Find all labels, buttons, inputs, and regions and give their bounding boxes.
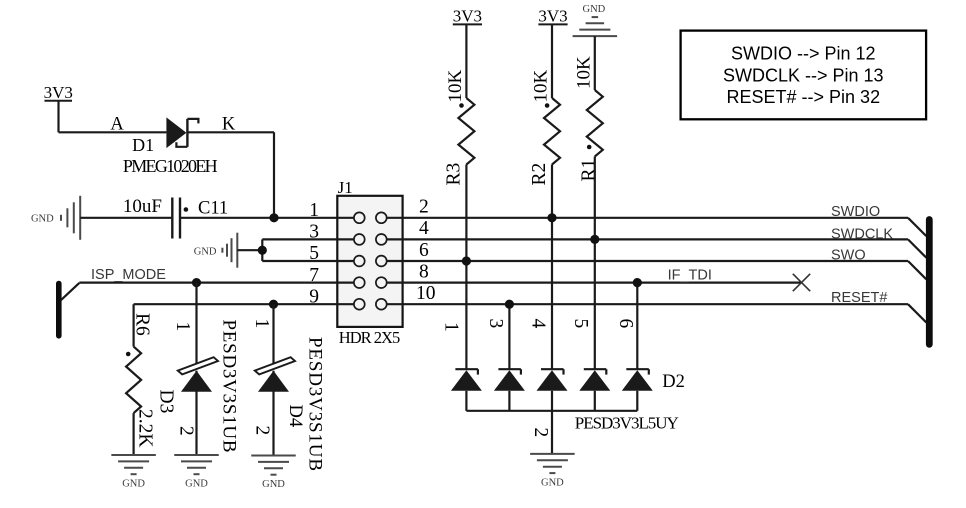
wire D2 pin2 to ground bbox=[551, 411, 553, 454]
net label IF_TDI bbox=[668, 268, 712, 284]
svg-text:SWDCLK: SWDCLK bbox=[831, 227, 893, 243]
power symbol 3V3 (left, feeds D1 anode) bbox=[44, 83, 73, 102]
net label SWDIO bbox=[831, 204, 880, 220]
wire ISP_MODE tap to D3 bbox=[195, 283, 197, 366]
resistor R6 bbox=[126, 347, 141, 414]
junction node D2.6/IF_TDI bbox=[633, 278, 642, 287]
wire ISP_MODE to pin7 bbox=[61, 283, 337, 301]
svg-text:10uF: 10uF bbox=[123, 196, 162, 217]
junction node gnd pins3/5 bbox=[258, 246, 267, 255]
wire R1 to D2 pin5 bbox=[594, 157, 596, 370]
wire 3V3 to R2 bbox=[551, 24, 553, 98]
wire pin9 to R6 bbox=[134, 304, 338, 346]
wire D2 pin6 riser bbox=[636, 283, 638, 370]
wire D3 to ground bbox=[195, 371, 197, 455]
svg-text:3: 3 bbox=[485, 319, 506, 329]
label D1 bbox=[132, 135, 154, 155]
power symbol 3V3 (above R3) bbox=[453, 7, 482, 26]
net label ISP_MODE bbox=[91, 267, 166, 283]
svg-text:C11: C11 bbox=[198, 199, 228, 219]
svg-text:D1: D1 bbox=[132, 135, 154, 155]
diode D2 channel 2 bbox=[494, 369, 525, 391]
wire pin4 SWDCLK bbox=[403, 239, 927, 257]
pin label 2 of D2 bbox=[530, 428, 551, 438]
diode D2 channel 3 bbox=[537, 369, 568, 391]
svg-text:SWO: SWO bbox=[831, 247, 866, 263]
value 10K (R3) bbox=[445, 70, 466, 103]
svg-text:1: 1 bbox=[251, 319, 272, 329]
svg-text:J1: J1 bbox=[338, 178, 353, 197]
label D2 bbox=[662, 372, 685, 392]
svg-text:2: 2 bbox=[419, 197, 429, 218]
svg-text:GND: GND bbox=[583, 4, 606, 15]
connector stub (right, off-page) bbox=[926, 220, 933, 345]
svg-text:PESD3V3S1UB: PESD3V3S1UB bbox=[219, 320, 240, 453]
svg-text:4: 4 bbox=[419, 218, 429, 239]
svg-text:5: 5 bbox=[570, 319, 591, 329]
svg-text:GND: GND bbox=[262, 479, 285, 490]
svg-text:2: 2 bbox=[252, 426, 273, 436]
svg-text:R3: R3 bbox=[444, 163, 465, 186]
power symbol 3V3 (above R2) bbox=[538, 7, 567, 26]
svg-text:8: 8 bbox=[419, 261, 429, 282]
no-connect X on IF_TDI bbox=[793, 274, 810, 291]
svg-text:1: 1 bbox=[441, 322, 462, 332]
junction node D4 tap on pin9 bbox=[269, 300, 278, 309]
value 10K (R1) bbox=[573, 56, 594, 89]
diode D4 (TVS) bbox=[255, 357, 295, 392]
svg-text:SWDCLK --> Pin 13: SWDCLK --> Pin 13 bbox=[723, 65, 884, 85]
svg-text:4: 4 bbox=[528, 319, 549, 329]
svg-text:HDR 2X5: HDR 2X5 bbox=[339, 328, 400, 347]
wire pin5 to gnd corner bbox=[262, 260, 337, 262]
label J1 bbox=[338, 178, 353, 197]
ground GND (pins 3/5) bbox=[194, 233, 263, 268]
svg-text:PMEG1020EH: PMEG1020EH bbox=[123, 156, 218, 176]
junction node D3 tap on ISP_MODE bbox=[192, 278, 201, 287]
junction node D2.3/RESET# bbox=[505, 300, 514, 309]
svg-text:D3: D3 bbox=[156, 390, 177, 414]
ground GND (below R6) bbox=[111, 455, 156, 490]
wire C11 to J1 pin 1 bbox=[180, 217, 337, 219]
wire pin2 SWDIO bbox=[403, 218, 927, 236]
diode D1 (schottky) bbox=[166, 117, 198, 148]
wire pin8 IF_TDI bbox=[403, 282, 802, 284]
resistor R1 bbox=[587, 90, 603, 157]
svg-text:3V3: 3V3 bbox=[538, 7, 567, 26]
wire 3V3 to D1 anode bbox=[59, 101, 167, 133]
resistor R2 bbox=[544, 98, 560, 165]
wire pin10 RESET# bbox=[403, 304, 927, 322]
net label SWDCLK bbox=[831, 227, 893, 243]
pin label 2 of D4 bbox=[252, 426, 273, 436]
pin label 1 of D4 bbox=[251, 319, 272, 329]
wire R6 to ground bbox=[133, 413, 135, 455]
note box with pin mapping text bbox=[681, 31, 927, 120]
wire D1 cathode to node pin1 bbox=[187, 132, 274, 218]
connector stub (left, off-page) bbox=[56, 284, 62, 336]
svg-text:3V3: 3V3 bbox=[453, 7, 482, 26]
ground GND (left of C11) bbox=[31, 196, 80, 240]
svg-text:10K: 10K bbox=[531, 70, 552, 103]
svg-text:1: 1 bbox=[172, 322, 193, 332]
label R1 bbox=[579, 159, 600, 182]
wire GND to R1 bbox=[594, 36, 596, 90]
ground GND (below D2) bbox=[530, 454, 575, 489]
label D4 bbox=[285, 405, 305, 428]
pin labels 1 3 4 5 6 of D2 bbox=[441, 319, 637, 332]
svg-text:2.2K: 2.2K bbox=[135, 409, 156, 447]
wire R3 to D2 pin1 bbox=[465, 165, 467, 370]
svg-text:PESD3V3L5UY: PESD3V3L5UY bbox=[575, 414, 679, 433]
connector J1 HDR 2X5 bbox=[337, 196, 402, 327]
net label RESET# bbox=[831, 290, 887, 306]
wire 3V3 to R3 bbox=[465, 24, 467, 98]
wire R2 to D2 pin4 bbox=[551, 165, 553, 370]
svg-text:ISP_MODE: ISP_MODE bbox=[91, 267, 166, 283]
svg-text:RESET# --> Pin 32: RESET# --> Pin 32 bbox=[727, 87, 881, 107]
wire pin3 to gnd corner bbox=[262, 238, 337, 240]
svg-text:10K: 10K bbox=[573, 56, 594, 89]
label R2 bbox=[529, 163, 550, 186]
diode D2 channel 1 bbox=[451, 369, 482, 391]
svg-text:2: 2 bbox=[176, 426, 197, 436]
label A (anode) bbox=[110, 115, 124, 135]
svg-text:RESET#: RESET# bbox=[831, 290, 887, 306]
wire D2 pin3 riser bbox=[508, 304, 510, 369]
ground GND (above R1) bbox=[573, 4, 618, 36]
junction node R1/SWDCLK bbox=[590, 235, 599, 244]
svg-text:D4: D4 bbox=[285, 405, 305, 428]
wire gnd riser pins3/5 bbox=[261, 239, 263, 261]
net label SWO bbox=[831, 247, 866, 263]
resistor R3 bbox=[458, 98, 474, 165]
ground GND (below D4) bbox=[251, 456, 296, 491]
ground GND (below D3) bbox=[174, 455, 219, 490]
svg-text:10K: 10K bbox=[445, 70, 466, 103]
wire GND to C11 bbox=[80, 217, 172, 219]
svg-text:A: A bbox=[110, 115, 124, 135]
diode D3 (TVS) bbox=[178, 357, 218, 392]
label C11 bbox=[198, 199, 228, 219]
pin label 2 of D3 bbox=[176, 426, 197, 436]
svg-text:IF_TDI: IF_TDI bbox=[668, 268, 712, 284]
svg-text:GND: GND bbox=[31, 214, 54, 225]
value PESD3V3S1UB (D4) bbox=[305, 337, 326, 471]
pin label 1 of D3 bbox=[172, 322, 193, 332]
svg-text:GND: GND bbox=[541, 477, 564, 488]
junction node R2/SWDIO bbox=[547, 213, 556, 222]
junction node D1/C11/pin1 bbox=[269, 213, 278, 222]
svg-text:R2: R2 bbox=[529, 163, 550, 186]
value HDR 2X5 bbox=[339, 328, 400, 347]
wire pin6 SWO bbox=[403, 261, 927, 279]
svg-text:10: 10 bbox=[416, 283, 436, 304]
svg-text:SWDIO --> Pin 12: SWDIO --> Pin 12 bbox=[731, 44, 876, 64]
svg-text:R1: R1 bbox=[579, 159, 600, 182]
junction node R3/SWO bbox=[462, 256, 471, 265]
wire D2 anode bus bbox=[466, 391, 637, 411]
svg-text:GND: GND bbox=[122, 479, 145, 490]
value 2.2K (R6) bbox=[135, 409, 156, 447]
svg-text:D2: D2 bbox=[662, 372, 685, 392]
value PESD3V3L5UY bbox=[575, 414, 679, 433]
label R6 bbox=[132, 313, 153, 336]
svg-text:1: 1 bbox=[309, 200, 319, 221]
value PESD3V3S1UB (D3) bbox=[219, 320, 240, 453]
svg-text:2: 2 bbox=[530, 428, 551, 438]
svg-text:GND: GND bbox=[185, 479, 208, 490]
capacitor C11 bbox=[172, 198, 188, 239]
value 10uF bbox=[123, 196, 162, 217]
wire pin9 tap to D4 bbox=[272, 304, 274, 366]
label D3 bbox=[156, 390, 177, 414]
svg-text:6: 6 bbox=[419, 240, 429, 261]
value PMEG1020EH bbox=[123, 156, 218, 176]
wire D4 to ground bbox=[272, 371, 274, 456]
svg-text:3V3: 3V3 bbox=[44, 83, 73, 102]
svg-text:GND: GND bbox=[194, 246, 217, 257]
svg-text:6: 6 bbox=[615, 319, 636, 329]
svg-text:SWDIO: SWDIO bbox=[831, 204, 880, 220]
diode D2 channel 5 bbox=[622, 369, 653, 391]
value 10K (R2) bbox=[531, 70, 552, 103]
label R3 bbox=[444, 163, 465, 186]
svg-text:PESD3V3S1UB: PESD3V3S1UB bbox=[305, 337, 326, 471]
svg-text:R6: R6 bbox=[132, 313, 153, 336]
pin numbers of J1 bbox=[309, 197, 435, 308]
diode D2 channel 4 bbox=[579, 369, 610, 391]
label K (cathode) bbox=[222, 115, 236, 135]
